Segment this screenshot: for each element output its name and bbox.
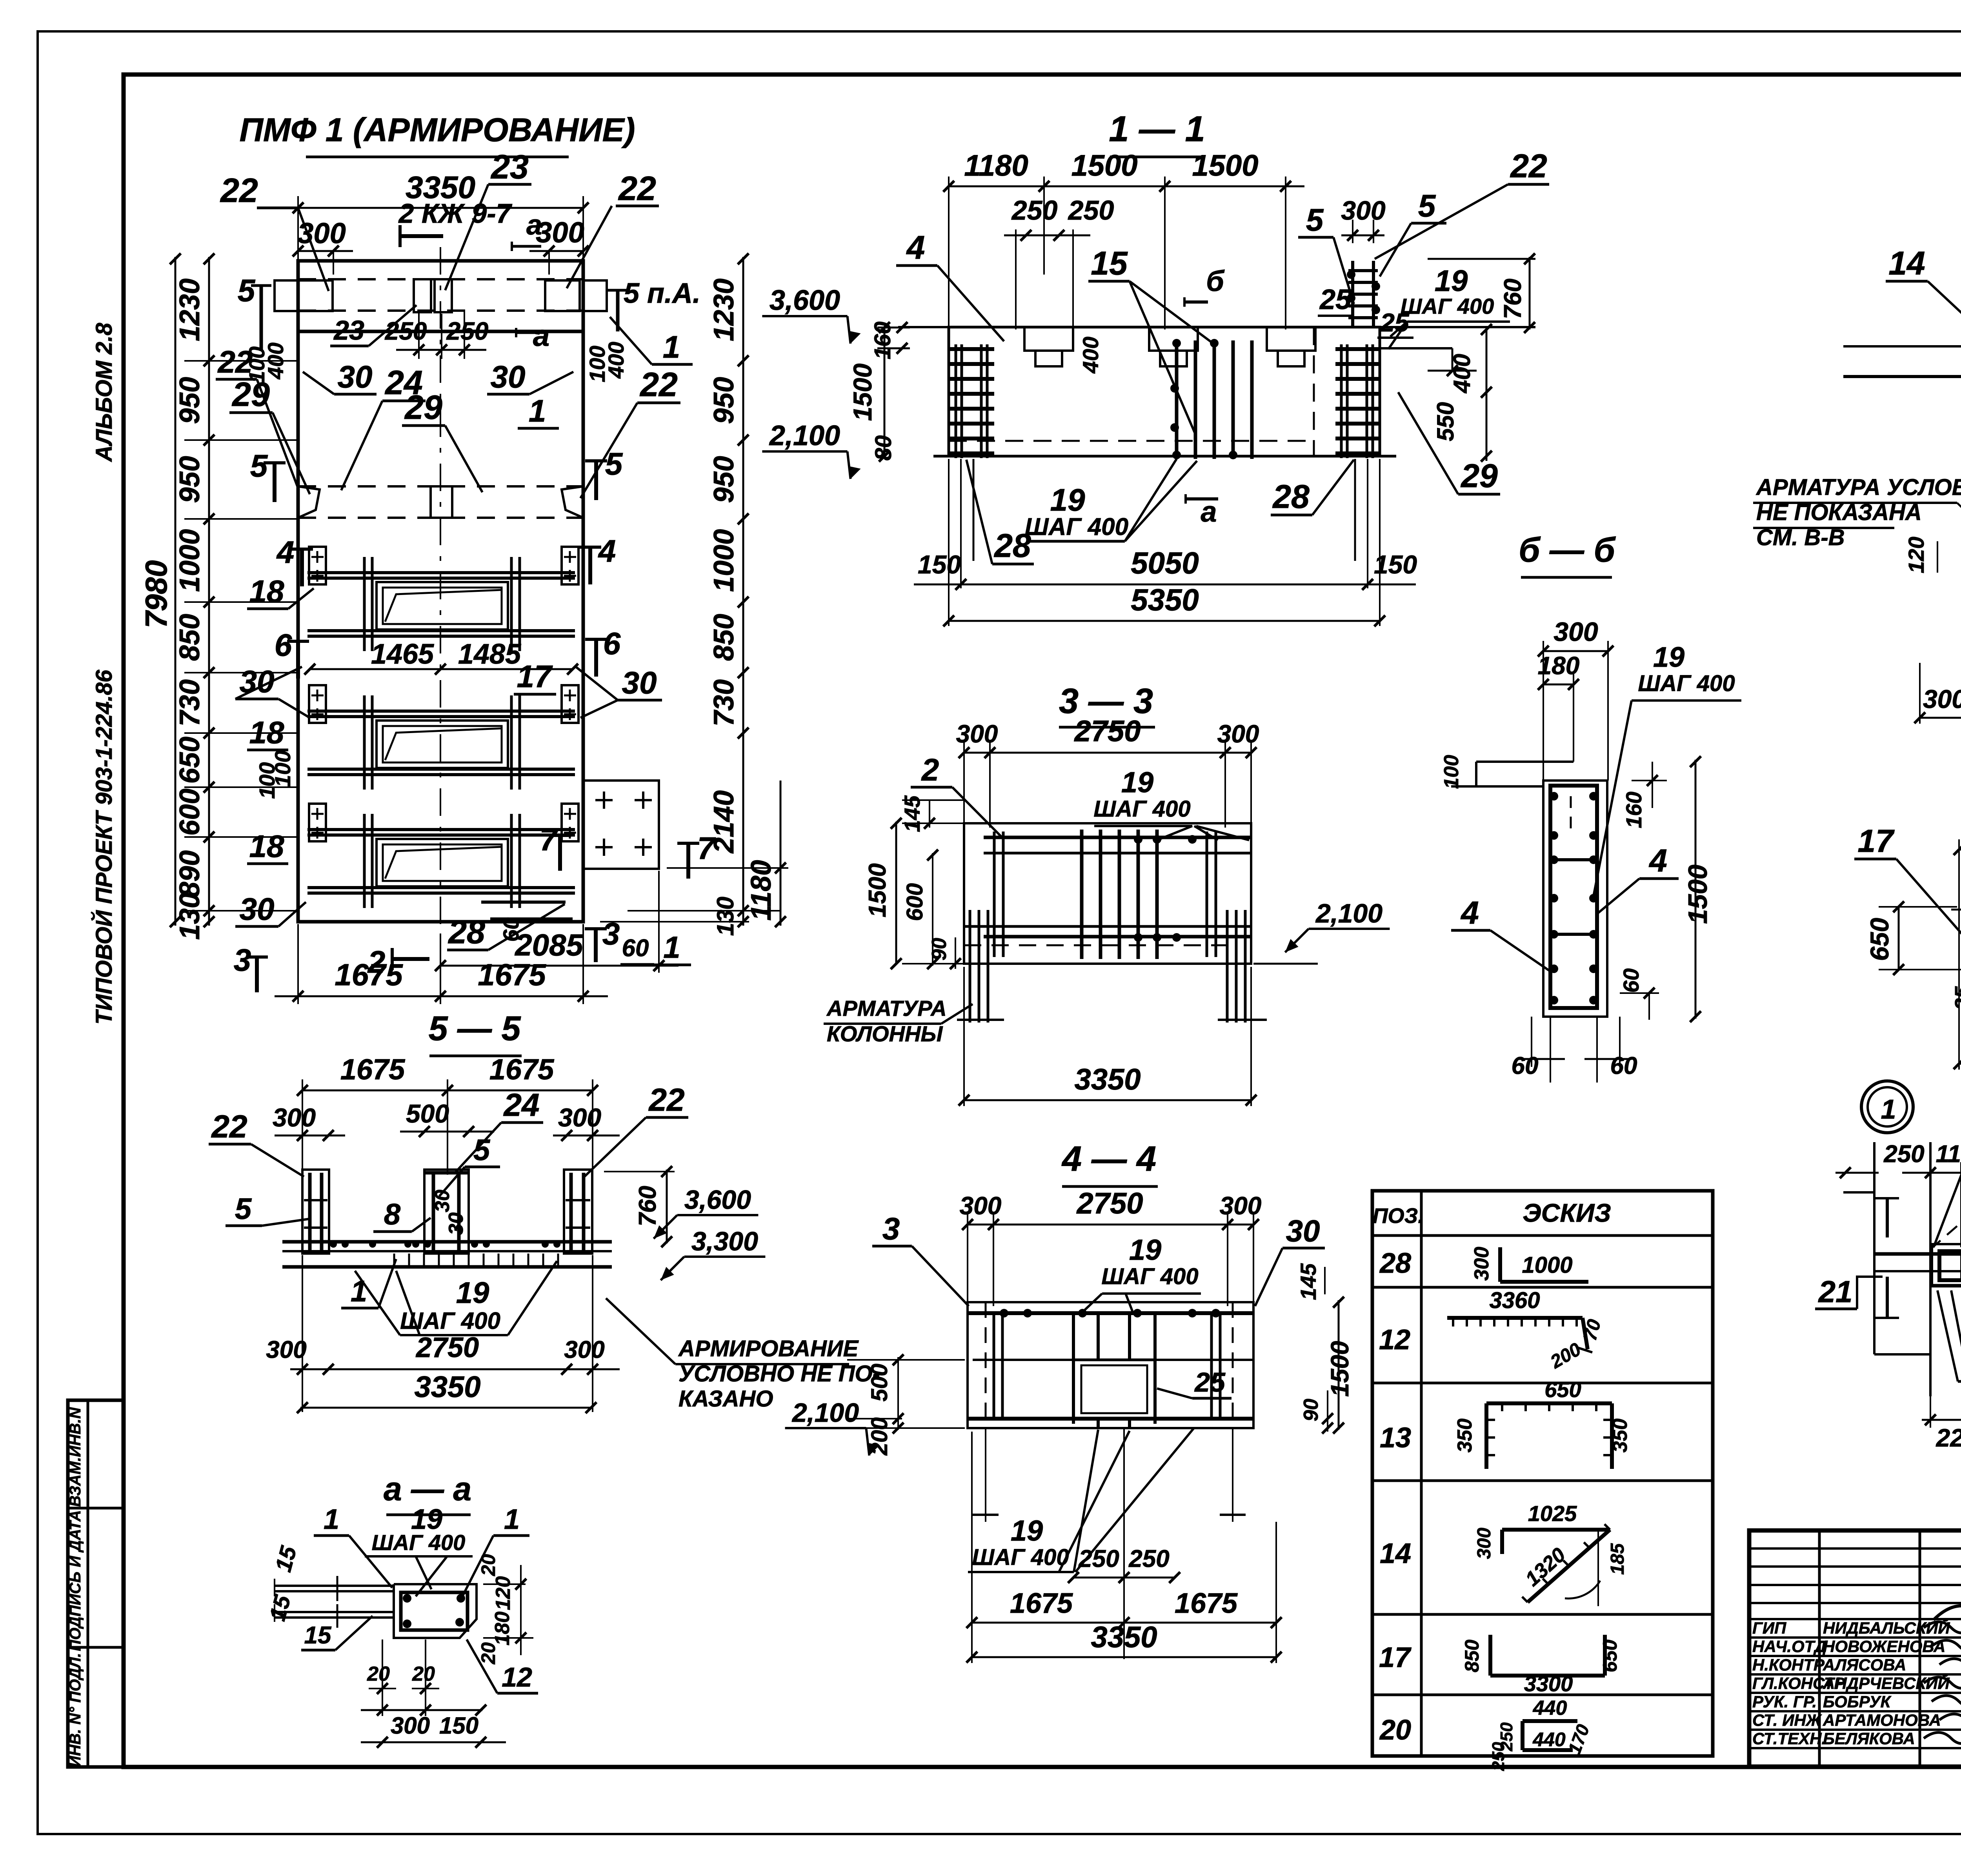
svg-text:28: 28 xyxy=(1379,1248,1411,1279)
svg-text:1675: 1675 xyxy=(489,1053,555,1086)
svg-text:2: 2 xyxy=(921,752,939,787)
svg-text:1025: 1025 xyxy=(1528,1501,1577,1526)
svg-text:1180: 1180 xyxy=(964,149,1028,182)
svg-text:300: 300 xyxy=(960,1192,1002,1220)
svg-text:3350: 3350 xyxy=(414,1370,480,1404)
svg-text:17: 17 xyxy=(517,659,553,694)
svg-text:3350: 3350 xyxy=(1091,1621,1157,1654)
svg-text:500: 500 xyxy=(406,1099,449,1128)
svg-text:3360: 3360 xyxy=(1489,1288,1540,1313)
svg-text:1: 1 xyxy=(529,393,546,428)
svg-text:950: 950 xyxy=(708,456,740,503)
svg-text:760: 760 xyxy=(1499,278,1526,319)
svg-text:20: 20 xyxy=(367,1663,390,1685)
svg-text:730: 730 xyxy=(174,679,206,726)
svg-text:3,600: 3,600 xyxy=(769,285,840,316)
svg-text:90: 90 xyxy=(1300,1399,1322,1421)
svg-text:АРМАТУРА УСЛОВНО: АРМАТУРА УСЛОВНО xyxy=(1755,475,1961,500)
svg-text:300: 300 xyxy=(956,720,998,748)
svg-text:СТ.ТЕХН.: СТ.ТЕХН. xyxy=(1752,1729,1826,1748)
svg-text:30: 30 xyxy=(445,1212,468,1235)
svg-text:23: 23 xyxy=(490,148,529,186)
svg-text:180: 180 xyxy=(491,1612,514,1646)
svg-text:160: 160 xyxy=(1621,792,1646,828)
svg-text:5: 5 xyxy=(238,273,256,308)
svg-text:19: 19 xyxy=(456,1276,489,1310)
svg-text:60: 60 xyxy=(1512,1052,1539,1079)
svg-text:60: 60 xyxy=(622,935,649,962)
svg-text:1: 1 xyxy=(324,1504,339,1535)
svg-text:б — б: б — б xyxy=(1519,530,1616,569)
svg-text:440: 440 xyxy=(1533,1697,1567,1720)
svg-text:600: 600 xyxy=(902,883,928,921)
svg-text:ПМФ 1 (АРМИРОВАНИЕ): ПМФ 1 (АРМИРОВАНИЕ) xyxy=(240,111,635,148)
svg-text:850: 850 xyxy=(1461,1639,1483,1672)
svg-text:ПОДПИСЬ И ДАТА: ПОДПИСЬ И ДАТА xyxy=(67,1510,84,1651)
svg-text:18: 18 xyxy=(249,829,284,864)
svg-text:20: 20 xyxy=(412,1663,435,1685)
svg-text:500: 500 xyxy=(867,1364,892,1402)
svg-text:АРТАМОНОВА: АРТАМОНОВА xyxy=(1823,1711,1941,1729)
svg-text:25: 25 xyxy=(1379,308,1410,337)
svg-text:3: 3 xyxy=(234,943,251,977)
svg-text:115: 115 xyxy=(1936,1141,1961,1168)
svg-text:60: 60 xyxy=(1610,1052,1637,1079)
svg-text:б: б xyxy=(1206,265,1225,297)
svg-text:19: 19 xyxy=(1129,1234,1161,1266)
svg-text:1500: 1500 xyxy=(1071,149,1137,182)
svg-text:440: 440 xyxy=(1532,1729,1566,1750)
svg-text:300: 300 xyxy=(297,217,346,249)
svg-text:а: а xyxy=(1201,495,1217,528)
svg-text:22: 22 xyxy=(648,1082,684,1118)
svg-text:1675: 1675 xyxy=(335,957,403,992)
svg-text:НОВОЖЕНОВА: НОВОЖЕНОВА xyxy=(1823,1637,1945,1656)
svg-text:5: 5 xyxy=(605,446,623,481)
svg-text:1230: 1230 xyxy=(708,278,740,341)
svg-text:4: 4 xyxy=(1460,895,1479,931)
svg-text:1675: 1675 xyxy=(478,957,546,992)
svg-text:30: 30 xyxy=(491,359,526,394)
svg-text:250: 250 xyxy=(1011,195,1058,226)
svg-text:5: 5 xyxy=(250,448,268,483)
svg-text:4: 4 xyxy=(276,535,295,570)
svg-text:ИНВ. N° ПОДЛ.: ИНВ. N° ПОДЛ. xyxy=(67,1653,84,1767)
svg-text:250: 250 xyxy=(1128,1545,1169,1572)
svg-text:а: а xyxy=(526,209,542,241)
svg-text:1500: 1500 xyxy=(1326,1341,1354,1397)
svg-text:650: 650 xyxy=(1865,918,1894,961)
svg-text:1500: 1500 xyxy=(1683,864,1713,924)
svg-text:2750: 2750 xyxy=(415,1332,479,1363)
svg-text:20: 20 xyxy=(1379,1714,1411,1746)
svg-text:1000: 1000 xyxy=(174,529,206,592)
svg-text:5350: 5350 xyxy=(1131,582,1199,617)
svg-text:600: 600 xyxy=(174,788,206,835)
svg-text:5: 5 xyxy=(235,1192,252,1226)
svg-text:90: 90 xyxy=(928,938,951,961)
svg-text:30: 30 xyxy=(240,892,275,926)
svg-text:1500: 1500 xyxy=(864,863,891,917)
svg-text:19: 19 xyxy=(1653,642,1684,673)
svg-text:ЭСКИЗ: ЭСКИЗ xyxy=(1523,1198,1611,1227)
svg-text:Н.КОНТР: Н.КОНТР xyxy=(1752,1656,1825,1674)
svg-text:ШАГ 400: ШАГ 400 xyxy=(1638,671,1735,696)
svg-text:300: 300 xyxy=(536,216,584,249)
svg-text:5050: 5050 xyxy=(1131,546,1199,580)
svg-text:1: 1 xyxy=(1881,1094,1896,1125)
svg-text:1675: 1675 xyxy=(340,1053,406,1086)
svg-text:ШАГ 400: ШАГ 400 xyxy=(972,1545,1069,1570)
svg-text:1485: 1485 xyxy=(458,639,521,670)
svg-text:250: 250 xyxy=(1489,1742,1508,1771)
svg-text:850: 850 xyxy=(174,614,206,661)
svg-text:2,100: 2,100 xyxy=(1315,899,1383,928)
svg-text:1: 1 xyxy=(504,1504,520,1535)
svg-text:550: 550 xyxy=(1432,402,1459,441)
svg-text:4: 4 xyxy=(1648,843,1667,879)
svg-text:300: 300 xyxy=(1217,720,1259,748)
svg-text:13: 13 xyxy=(1380,1422,1411,1454)
svg-text:19: 19 xyxy=(1435,264,1468,298)
svg-text:300: 300 xyxy=(558,1103,601,1132)
svg-text:29: 29 xyxy=(1460,457,1498,494)
svg-text:400: 400 xyxy=(1078,337,1103,373)
svg-text:220: 220 xyxy=(1936,1424,1961,1452)
svg-text:3: 3 xyxy=(882,1211,900,1246)
svg-text:25: 25 xyxy=(1319,284,1352,315)
svg-text:145: 145 xyxy=(1296,1263,1321,1300)
svg-text:4 — 4: 4 — 4 xyxy=(1061,1139,1156,1179)
svg-text:300: 300 xyxy=(564,1336,604,1363)
svg-text:2,100: 2,100 xyxy=(791,1398,859,1428)
svg-text:ВЗАМ.ИНВ.N: ВЗАМ.ИНВ.N xyxy=(67,1407,84,1507)
svg-text:300: 300 xyxy=(1220,1192,1262,1220)
svg-text:23: 23 xyxy=(333,315,364,346)
svg-text:1465: 1465 xyxy=(371,639,434,670)
svg-text:1675: 1675 xyxy=(1175,1588,1238,1619)
svg-text:8: 8 xyxy=(384,1198,401,1231)
svg-text:ШАГ 400: ШАГ 400 xyxy=(372,1530,466,1555)
svg-text:АНДРЧЕВСКИЙ: АНДРЧЕВСКИЙ xyxy=(1823,1673,1950,1692)
svg-text:ГИП: ГИП xyxy=(1752,1619,1786,1637)
svg-text:950: 950 xyxy=(174,456,206,503)
svg-text:12: 12 xyxy=(502,1662,532,1692)
svg-text:185: 185 xyxy=(1607,1543,1628,1575)
svg-text:650: 650 xyxy=(1544,1377,1581,1402)
svg-text:3,300: 3,300 xyxy=(691,1226,758,1256)
svg-text:2085: 2085 xyxy=(514,928,584,962)
svg-text:950: 950 xyxy=(708,377,740,424)
svg-text:950: 950 xyxy=(174,377,206,424)
svg-text:5: 5 xyxy=(473,1134,491,1167)
svg-text:1180: 1180 xyxy=(746,860,777,921)
svg-text:1 — 1: 1 — 1 xyxy=(1109,109,1205,149)
svg-text:2750: 2750 xyxy=(1076,1187,1143,1220)
svg-text:300: 300 xyxy=(391,1712,430,1739)
svg-text:БЕЛЯКОВА: БЕЛЯКОВА xyxy=(1823,1729,1915,1748)
svg-text:1000: 1000 xyxy=(708,529,740,592)
svg-text:250: 250 xyxy=(1078,1545,1119,1572)
svg-text:150: 150 xyxy=(918,550,961,579)
svg-text:ПОЗ.: ПОЗ. xyxy=(1373,1204,1424,1228)
svg-text:22: 22 xyxy=(220,172,258,209)
svg-text:350: 350 xyxy=(1609,1419,1632,1453)
svg-text:850: 850 xyxy=(708,614,740,661)
svg-text:29: 29 xyxy=(404,389,442,426)
svg-text:ШАГ 400: ШАГ 400 xyxy=(1101,1264,1198,1289)
svg-text:3,600: 3,600 xyxy=(684,1185,751,1215)
svg-text:21: 21 xyxy=(1818,1274,1853,1309)
svg-text:ШАГ 400: ШАГ 400 xyxy=(1025,513,1128,540)
svg-text:2750: 2750 xyxy=(1073,715,1141,748)
svg-text:28: 28 xyxy=(1272,478,1310,515)
svg-text:5: 5 xyxy=(1306,202,1324,237)
svg-text:22: 22 xyxy=(211,1109,247,1145)
svg-text:1500: 1500 xyxy=(848,363,877,421)
svg-text:60: 60 xyxy=(1619,968,1643,993)
svg-text:1230: 1230 xyxy=(174,278,206,341)
svg-text:350: 350 xyxy=(1453,1419,1476,1453)
svg-text:2140: 2140 xyxy=(708,790,740,854)
svg-text:15: 15 xyxy=(304,1622,332,1649)
svg-text:3300: 3300 xyxy=(1524,1671,1573,1696)
svg-text:7: 7 xyxy=(540,822,558,857)
svg-text:130: 130 xyxy=(712,897,739,936)
svg-text:130: 130 xyxy=(174,893,206,940)
svg-text:6: 6 xyxy=(603,626,621,661)
svg-text:а: а xyxy=(533,319,549,353)
svg-text:19: 19 xyxy=(1050,482,1085,517)
svg-text:АЛЬБОМ 2.8: АЛЬБОМ 2.8 xyxy=(91,322,117,462)
svg-text:5: 5 xyxy=(1418,188,1436,223)
svg-text:20: 20 xyxy=(477,1554,499,1576)
svg-text:14: 14 xyxy=(1888,245,1925,282)
svg-text:1: 1 xyxy=(351,1275,367,1308)
svg-text:7980: 7980 xyxy=(139,560,173,628)
svg-text:250: 250 xyxy=(385,317,427,345)
svg-text:30: 30 xyxy=(338,359,373,394)
svg-text:100: 100 xyxy=(270,750,295,787)
svg-text:300: 300 xyxy=(1341,196,1386,226)
svg-text:30: 30 xyxy=(1286,1214,1320,1248)
svg-text:1: 1 xyxy=(663,930,680,964)
svg-text:14: 14 xyxy=(1380,1538,1411,1569)
svg-text:25: 25 xyxy=(1194,1367,1226,1397)
svg-text:650: 650 xyxy=(174,737,206,784)
svg-text:19: 19 xyxy=(1121,766,1153,799)
svg-text:БОБРУК: БОБРУК xyxy=(1823,1692,1892,1711)
svg-text:РУК. ГР.: РУК. ГР. xyxy=(1752,1692,1817,1711)
svg-text:ТИПОВОЙ ПРОЕКТ 903-1-224.86: ТИПОВОЙ ПРОЕКТ 903-1-224.86 xyxy=(91,670,117,1024)
svg-text:17: 17 xyxy=(1379,1642,1412,1673)
svg-text:1675: 1675 xyxy=(1010,1588,1073,1619)
svg-text:730: 730 xyxy=(708,679,740,726)
svg-text:5 — 5: 5 — 5 xyxy=(429,1009,521,1048)
svg-text:300: 300 xyxy=(1554,617,1598,647)
svg-text:2 КЖ 9-7: 2 КЖ 9-7 xyxy=(398,198,513,229)
svg-text:22: 22 xyxy=(618,170,656,207)
svg-text:КОЛОННЫ: КОЛОННЫ xyxy=(827,1021,943,1046)
svg-text:890: 890 xyxy=(174,850,206,897)
svg-text:250: 250 xyxy=(446,317,489,345)
svg-text:300: 300 xyxy=(1923,684,1961,713)
svg-text:400: 400 xyxy=(263,342,288,379)
svg-text:АРМИРОВАНИЕ: АРМИРОВАНИЕ xyxy=(678,1336,859,1361)
svg-text:ШАГ 400: ШАГ 400 xyxy=(1401,294,1494,318)
svg-text:12: 12 xyxy=(1379,1324,1410,1356)
svg-text:400: 400 xyxy=(604,342,628,378)
svg-text:19: 19 xyxy=(1011,1514,1043,1547)
svg-text:15: 15 xyxy=(1091,245,1128,282)
svg-text:АРМАТУРА: АРМАТУРА xyxy=(826,996,947,1021)
svg-text:2,100: 2,100 xyxy=(769,420,840,451)
svg-text:300: 300 xyxy=(273,1103,316,1132)
svg-text:5 п.А.: 5 п.А. xyxy=(624,278,700,309)
svg-text:22: 22 xyxy=(639,366,678,404)
svg-text:30: 30 xyxy=(431,1190,454,1212)
svg-text:24: 24 xyxy=(503,1087,539,1123)
svg-text:100: 100 xyxy=(1440,755,1463,789)
svg-text:1000: 1000 xyxy=(1522,1252,1572,1278)
svg-text:КАЗАНО: КАЗАНО xyxy=(679,1386,773,1412)
svg-text:НАЧ.ОТД: НАЧ.ОТД xyxy=(1752,1637,1826,1656)
svg-text:300: 300 xyxy=(266,1336,306,1363)
svg-text:ШАГ 400: ШАГ 400 xyxy=(1093,796,1190,822)
svg-text:18: 18 xyxy=(249,574,284,609)
svg-text:760: 760 xyxy=(634,1186,661,1226)
svg-text:250: 250 xyxy=(1068,195,1114,226)
svg-text:а — а: а — а xyxy=(384,1470,471,1507)
svg-text:17: 17 xyxy=(1857,823,1895,859)
svg-text:120: 120 xyxy=(492,1576,515,1610)
svg-text:30: 30 xyxy=(622,665,657,700)
svg-text:650: 650 xyxy=(1599,1639,1621,1672)
svg-text:250: 250 xyxy=(1883,1141,1924,1168)
svg-text:22: 22 xyxy=(1510,147,1547,184)
svg-text:6: 6 xyxy=(275,628,292,662)
svg-text:300: 300 xyxy=(1470,1247,1493,1281)
svg-text:1500: 1500 xyxy=(1192,149,1258,182)
svg-text:150: 150 xyxy=(439,1712,478,1739)
svg-text:АЛЯСОВА: АЛЯСОВА xyxy=(1823,1656,1906,1674)
svg-text:НИДБАЛЬСКИЙ: НИДБАЛЬСКИЙ xyxy=(1823,1618,1950,1637)
svg-text:28: 28 xyxy=(448,913,485,950)
svg-text:120: 120 xyxy=(1904,537,1928,573)
svg-text:3350: 3350 xyxy=(1074,1063,1141,1096)
svg-text:4: 4 xyxy=(598,533,616,568)
svg-text:20: 20 xyxy=(477,1642,499,1665)
svg-text:1: 1 xyxy=(663,329,680,364)
svg-text:СТ. ИНЖ: СТ. ИНЖ xyxy=(1752,1711,1822,1729)
svg-text:4: 4 xyxy=(906,229,925,266)
svg-text:300: 300 xyxy=(1474,1528,1495,1559)
